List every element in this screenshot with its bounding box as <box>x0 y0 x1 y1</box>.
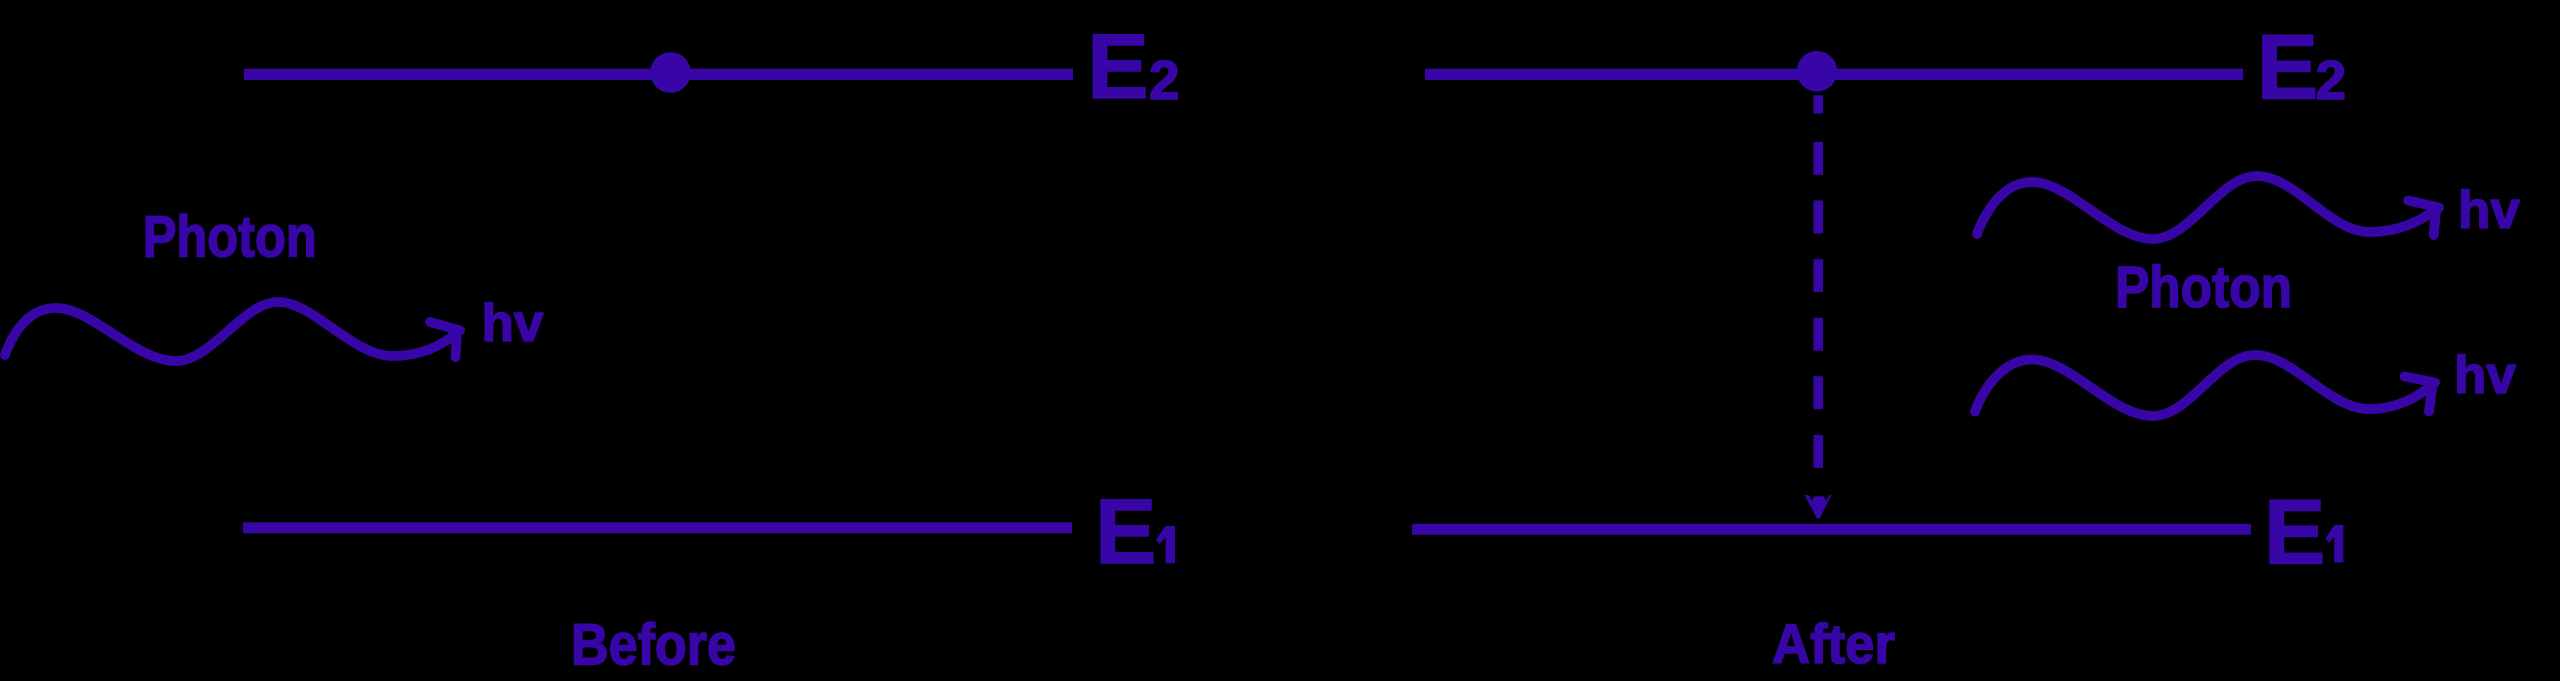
svg-text:After: After <box>1772 612 1895 675</box>
svg-text:Photon: Photon <box>143 205 317 270</box>
svg-text:2: 2 <box>2316 49 2347 111</box>
svg-text:E: E <box>1095 481 1156 583</box>
svg-text:E: E <box>2264 481 2325 583</box>
svg-text:E: E <box>2257 17 2318 119</box>
svg-text:hv: hv <box>482 294 544 353</box>
svg-text:Before: Before <box>571 613 736 678</box>
svg-text:hv: hv <box>2454 346 2516 405</box>
svg-text:hv: hv <box>2458 181 2520 240</box>
svg-text:Photon: Photon <box>2115 255 2292 320</box>
svg-text:2: 2 <box>1149 49 1180 111</box>
svg-text:E: E <box>1087 16 1148 118</box>
